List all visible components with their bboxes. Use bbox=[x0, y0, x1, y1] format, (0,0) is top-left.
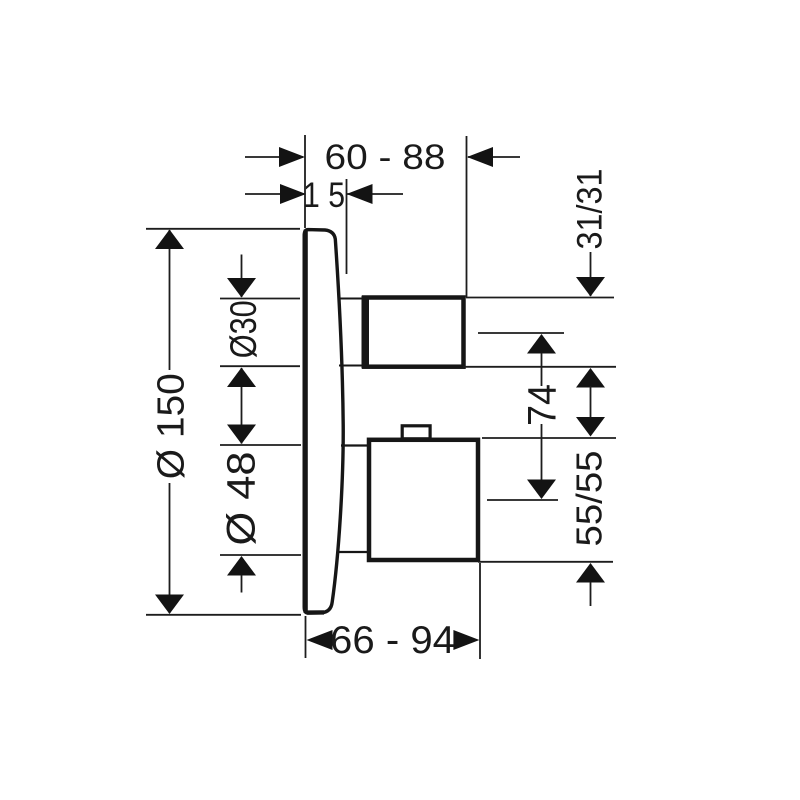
top knob neck bottom line bbox=[339, 365, 366, 367]
shared stem between 31/31 and 55/55 arrows bbox=[590, 386, 592, 418]
dimension Ø150 stem lower bbox=[169, 483, 171, 613]
svg-text:60 - 88: 60 - 88 bbox=[325, 138, 446, 177]
dimension 60-88 left arrow bbox=[279, 147, 305, 167]
extension line top knob bottom left (y=366.5) bbox=[220, 365, 300, 367]
top knob neck top line bbox=[339, 298, 366, 300]
top knob back flange (thick bar) bbox=[362, 296, 370, 368]
dimension 55/55 lower arrow bbox=[576, 563, 605, 583]
extension line top knob top left (y=298.5) bbox=[220, 298, 300, 300]
dimension Ø48 lower arrow bbox=[227, 556, 256, 576]
dimension 31/31 stem bbox=[590, 252, 592, 296]
dimension Ø30 upper stem bbox=[241, 255, 243, 298]
axis line bottom knob (y=500) bbox=[487, 499, 558, 501]
dimension Ø150 top arrow bbox=[155, 230, 184, 250]
dimension 66-94 left arrow bbox=[307, 630, 333, 650]
dimension Ø48 upper arrow bbox=[227, 425, 256, 445]
svg-text:66 - 94: 66 - 94 bbox=[330, 619, 455, 662]
svg-text:55/55: 55/55 bbox=[569, 451, 610, 547]
svg-text:Ø 150: Ø 150 bbox=[151, 373, 193, 479]
dimension 55/55 lower stem bbox=[590, 582, 592, 606]
dimension 15 left arrow bbox=[280, 184, 306, 204]
extension line wall face bottom (x=305.5) bbox=[305, 616, 307, 658]
extension line wall face (x=305) top bbox=[304, 135, 306, 228]
svg-text:74: 74 bbox=[521, 384, 565, 426]
bottom knob neck top line bbox=[341, 444, 371, 446]
dimension 31/31 lower arrow bbox=[576, 368, 605, 388]
dimension Ø48 lower stem bbox=[241, 575, 243, 593]
dimension Ø150 stem upper bbox=[169, 230, 171, 370]
extension line plate bottom (y=615) bbox=[146, 614, 301, 616]
dimension 74 upper stem bbox=[541, 353, 543, 386]
extension line bottom knob front (x=480) bbox=[479, 563, 481, 659]
bottom knob grip tab bbox=[402, 426, 430, 439]
dimension Ø30 upper arrow bbox=[227, 278, 256, 298]
axis line top knob (y=333) bbox=[478, 332, 564, 334]
dimension Ø30 lower arrow bbox=[227, 368, 256, 388]
dimension Ø30/Ø48 shared stem bbox=[241, 368, 243, 444]
dimension 60-88 right arrow bbox=[467, 147, 493, 167]
dimension 55/55 upper arrow bbox=[576, 417, 605, 437]
svg-text:Ø 48: Ø 48 bbox=[220, 452, 264, 546]
extension line plate front (x=346.5) bbox=[346, 179, 348, 274]
svg-text:31/31: 31/31 bbox=[571, 169, 610, 250]
svg-text:Ø30: Ø30 bbox=[223, 300, 264, 358]
extension line bottom knob top right (y=438) bbox=[482, 437, 616, 439]
extension line top knob front (x=466.5) bbox=[466, 136, 468, 298]
bottom knob body bbox=[369, 440, 478, 560]
extension line plate top (y=229) bbox=[146, 228, 300, 230]
extension line bottom knob neck bottom left (y=555) bbox=[220, 554, 301, 556]
extension line top knob bottom right (y=367) bbox=[463, 366, 616, 368]
extension line bottom knob bottom right (y=561.8) bbox=[478, 561, 613, 563]
bottom knob neck bottom line bbox=[339, 551, 371, 553]
dimension 31/31 upper arrow bbox=[576, 277, 605, 297]
dimension 15 right leader bbox=[347, 193, 404, 195]
dimension 66-94 right arrow bbox=[453, 630, 479, 650]
dimension 60-88 left leader bbox=[245, 156, 303, 158]
dimension 74 upper arrow bbox=[527, 334, 556, 354]
dimension 60-88 right leader bbox=[468, 156, 520, 158]
dimension Ø150 bottom arrow bbox=[155, 595, 184, 615]
dimension 15 left leader bbox=[245, 193, 304, 195]
dimension 15 right arrow bbox=[347, 184, 373, 204]
top knob body bbox=[364, 298, 464, 367]
extension line bottom knob neck top left (y=445) bbox=[220, 444, 301, 446]
svg-text:1 5: 1 5 bbox=[303, 176, 345, 215]
dimension 74 lower stem bbox=[541, 424, 543, 480]
extension line top knob top right (y=297.5) bbox=[466, 297, 614, 299]
escutcheon plate (side profile) bbox=[304, 230, 343, 613]
dimension 74 lower arrow bbox=[527, 480, 556, 500]
